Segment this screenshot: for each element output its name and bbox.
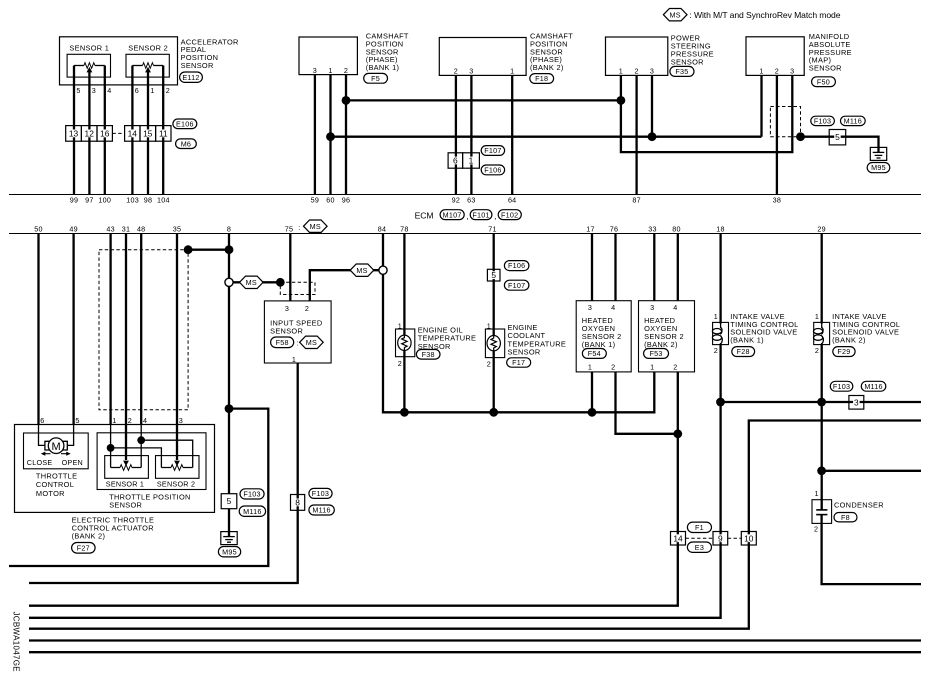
throttle position sensor box [97,433,206,490]
svg-text:SENSOR: SENSOR [181,61,214,70]
svg-text:M116: M116 [844,117,862,126]
svg-text:M95: M95 [871,163,886,172]
svg-text:11: 11 [159,128,168,138]
connector M116 (wire 8) [239,506,265,516]
svg-text:F101: F101 [472,210,489,219]
pin labels F54 [588,303,616,372]
potentiometer sensor 2 (E112) [126,54,169,77]
pin labels F27 top [40,416,183,425]
wire ECM 29 to solenoid F29 [821,234,823,324]
connector E3 [687,542,711,552]
wire shield drain to ground M95 [801,137,879,148]
pin labels F18 [454,66,515,75]
svg-text:E106: E106 [176,119,194,128]
svg-text:SENSOR: SENSOR [270,327,303,336]
connector F103 (bus) [830,381,853,391]
potentiometer TPS sensor 2 [156,456,200,479]
svg-text:3: 3 [92,86,96,95]
svg-text:1: 1 [398,321,402,330]
svg-text:59: 59 [311,196,320,205]
wire ECM 8 down to connector 5 [228,234,230,494]
junction wire 78 / ground bus [400,408,409,417]
wire E112 pin5 to ECM 99 [73,66,75,195]
svg-text:29: 29 [817,225,826,234]
svg-text:2: 2 [611,363,615,372]
connector terminal 15 [140,126,156,142]
connector terminal 12 [81,126,97,142]
connector terminal 5 (F106/F107) [487,269,500,281]
wire F18 pin2 to ECM 92 [455,75,457,194]
connector F54 [582,349,606,359]
wire ECM 78 through F38 to ground bus [403,234,405,413]
connector terminal 16 [97,126,112,142]
ground M95 left [218,547,240,557]
junction F54 pin2 / F53 pin2 [673,429,682,438]
svg-text:1: 1 [619,67,623,76]
junction TPS shield drain [184,245,193,254]
svg-text:E112: E112 [182,73,199,82]
svg-text:80: 80 [672,225,681,234]
svg-text:MS: MS [246,278,257,287]
svg-text:3: 3 [313,66,317,75]
svg-text:2: 2 [344,66,348,75]
svg-text:13: 13 [69,128,79,138]
svg-text:4: 4 [143,416,147,425]
ECM pin numbers bottom bus [34,225,826,234]
svg-text:1: 1 [510,66,514,75]
motor M symbol [45,438,67,454]
svg-text:64: 64 [508,196,517,205]
wire E112 pin1 to ECM 98 [147,72,149,195]
wire E112 pin3 to ECM 97 [88,72,90,195]
svg-text:4: 4 [611,303,615,312]
svg-text:F58: F58 [276,338,289,347]
svg-text:3: 3 [469,66,473,75]
connector M116 [841,116,866,125]
svg-text:2: 2 [814,524,818,533]
svg-text:F107: F107 [484,146,501,155]
svg-text:SENSOR 2: SENSOR 2 [157,479,195,488]
label heated oxygen sensor bank1 [582,316,622,349]
connector F107 [481,146,504,156]
engine coolant temperature sensor F17 box [485,329,504,358]
solenoid valve F28 [712,322,728,344]
junction F5 pin2 / H1 [342,96,351,105]
shield dashed box F58 input speed sensor [280,282,315,294]
svg-text:THROTTLE: THROTTLE [36,471,77,480]
svg-text:(BANK 2): (BANK 2) [530,63,564,72]
junction wire 8 split [225,404,234,413]
connector terminal 14 (F1/E3) [671,532,686,546]
connector terminal 14 [125,126,140,142]
connector F17 [507,358,531,367]
label input speed sensor [270,318,322,335]
svg-text:MOTOR: MOTOR [36,489,65,498]
svg-text:1: 1 [815,489,819,498]
svg-text:F35: F35 [675,67,688,76]
svg-text:87: 87 [632,196,641,205]
svg-text:5: 5 [491,270,496,280]
svg-text:F29: F29 [837,347,850,356]
svg-text:1: 1 [714,312,718,321]
wire F28 pin2 via connector 9 to left margin [29,344,721,618]
wire F58 pin2 to wire 84 MS branch [310,270,383,301]
svg-text:3: 3 [854,397,859,407]
svg-text:5: 5 [75,416,79,425]
wire F35 pin2 to ECM 87 [635,75,637,194]
svg-text:(BANK 2): (BANK 2) [72,531,106,540]
wire connector 5 to ground M95 [228,509,230,532]
wire ECM 71 through F17 to ground bus [493,234,495,413]
ECM bus line top [9,194,921,196]
svg-text:12: 12 [85,128,95,138]
pin labels E112 [76,86,170,95]
svg-text:F106: F106 [484,166,501,175]
label throttle position sensor [109,493,190,510]
wire TPS pin4 to sensor1 resistor [140,424,142,468]
svg-text:92: 92 [452,196,461,205]
svg-text:3: 3 [650,67,654,76]
svg-text:18: 18 [716,225,725,234]
wire E112 pin4 to ECM 100 [104,66,106,195]
svg-text:F106: F106 [508,261,525,270]
svg-text:2: 2 [634,67,638,76]
svg-text:5: 5 [227,496,232,506]
svg-text:99: 99 [70,196,79,205]
junction F28 pin2 / bus [716,398,725,407]
wire ECM 18 to solenoid F28 [719,234,721,324]
svg-text:97: 97 [85,196,94,205]
svg-text:14: 14 [128,128,138,138]
svg-text:F38: F38 [422,350,435,359]
wire ECM 80 to F53 pin4 [677,234,679,301]
junction TPS pin4 link [137,436,145,444]
connector F29 [833,347,855,357]
shield dashed box TPS wires [99,250,188,410]
svg-text:F8: F8 [841,513,850,522]
wire F54 pin2 to F53 pin2 [616,372,678,434]
connector F102 [498,210,521,220]
svg-text:MS: MS [670,10,681,19]
connector F103 [811,116,835,125]
MS hexagon wire 84 branch [350,264,374,276]
pin labels F5 [313,66,348,75]
solenoid valve F29 [814,322,830,344]
connector F18 [530,74,554,84]
wire F5 pin3 to ECM 59 [314,75,316,195]
wire via connector 10 to left margin [29,421,921,629]
wire bottom margin 2 [29,651,921,653]
svg-text:F103: F103 [814,117,831,126]
ECM pin numbers top bus [70,196,781,205]
label electric throttle control actuator [72,515,155,540]
svg-text:6: 6 [453,156,458,166]
wire ECM 31 to TPS pin2 wiper [125,234,127,461]
svg-text:(BANK 2): (BANK 2) [832,335,866,344]
svg-text:104: 104 [157,196,170,205]
potentiometer sensor 1 (E112) [67,54,110,77]
MS hexagon in F58 box [300,336,324,348]
connector E112 [180,72,203,82]
svg-text:43: 43 [106,225,115,234]
wire ECM 35 to TPS pin3 wiper [176,234,178,461]
connector F53 [644,349,669,359]
svg-text:(BANK 1): (BANK 1) [366,63,400,72]
svg-text:SENSOR: SENSOR [809,64,842,73]
wire bottom margin 1 [29,639,921,641]
label intake valve timing control solenoid bank1 [730,312,798,344]
wire H1 F5 pin2 to F35 pin1 [346,99,621,101]
connector F1 [687,522,711,532]
wire ECM 17 to F54 pin3 [591,234,593,301]
svg-text:OPEN: OPEN [62,458,83,467]
svg-text:SENSOR: SENSOR [109,500,142,509]
connector M107 [440,210,464,220]
electric throttle control actuator F27 outer box [15,425,215,513]
svg-text:103: 103 [126,196,139,205]
thermistor F17 [487,336,500,351]
label heated oxygen sensor bank2 [644,316,684,349]
svg-text:ECM: ECM [415,211,434,221]
svg-text:35: 35 [173,225,182,234]
connector terminal 3 (F103/M116) [849,396,864,410]
svg-text:10: 10 [744,533,754,543]
camshaft position sensor bank1 F5 box [299,37,357,75]
svg-text:6: 6 [135,86,139,95]
wire F5 pin2 to ECM 96 [345,75,347,195]
throttle control motor box [24,433,89,469]
svg-text:2: 2 [673,363,677,372]
wire F18 pin3 to ECM 63 [470,75,472,194]
svg-text:50: 50 [34,225,43,234]
svg-text:F54: F54 [588,349,601,358]
svg-text:SENSOR 1: SENSOR 1 [106,479,144,488]
svg-text:F5: F5 [371,74,380,83]
manifold absolute pressure sensor F50 box [746,37,804,76]
wire ECM 84 sensor ground bus to F53 pin1 [383,234,654,413]
svg-text:JCBWA1047GE: JCBWA1047GE [11,612,20,672]
svg-text:F107: F107 [508,281,525,290]
svg-text:(BANK 1): (BANK 1) [730,335,764,344]
junction F35 pin3 / H2 [648,132,657,141]
svg-text:MS: MS [310,222,321,231]
svg-text:48: 48 [137,225,146,234]
wire ECM 48 to TPS pin4 [140,234,142,425]
svg-text:MS: MS [356,266,367,275]
junction wire 71 / ground bus [489,408,498,417]
label camshaft position sensor bank1 [366,32,409,73]
wire F5 pin1 to ECM 60 [329,75,331,195]
connector F35 [670,66,694,76]
connector F8 [834,513,857,522]
connector F27 [72,543,96,554]
svg-text:SENSOR 1: SENSOR 1 [69,43,109,52]
svg-text:1: 1 [112,416,116,425]
heated oxygen sensor 2 bank1 F54 box [576,301,631,372]
svg-text:2: 2 [398,359,402,368]
wire bus F28 pin2 to connector 3 [721,401,921,403]
svg-text:CLOSE: CLOSE [27,458,53,467]
svg-text:3: 3 [179,416,183,425]
pin labels F50 [759,67,794,76]
connector F103 (F58) [309,488,332,498]
input speed sensor F58 box [264,301,331,363]
svg-text:M116: M116 [864,382,882,391]
svg-text:3: 3 [650,303,654,312]
svg-text:1: 1 [292,355,296,364]
svg-text:2: 2 [487,359,491,368]
wire pin6 to motor [39,424,45,445]
svg-text:F27: F27 [77,543,90,552]
wire pin5 to motor [67,424,73,445]
svg-text:F103: F103 [312,489,329,498]
ECM bus line bottom [9,233,921,235]
wire F50 pin1 to H2 [760,75,762,136]
MS legend hexagon [663,9,687,21]
junction F50 shield drain [796,132,805,141]
connector terminal 6 (F107/F106) [448,153,463,168]
connector M6 [176,139,197,149]
wire F53 pin2 via connector 14 to left margin [29,372,678,606]
svg-text:17: 17 [586,225,595,234]
dashed connector link 16-14 [112,132,124,134]
svg-text:SENSOR: SENSOR [508,348,541,357]
heated oxygen sensor 2 bank2 F53 box [639,301,695,372]
connector M116 (bus) [861,381,886,391]
svg-text:16: 16 [100,128,110,138]
wire E112 pin2 to ECM 104 [162,66,164,195]
svg-text:6: 6 [40,416,44,425]
svg-text:33: 33 [648,225,657,234]
svg-text:5: 5 [76,86,80,95]
svg-text:4: 4 [673,303,677,312]
svg-text:2: 2 [128,416,132,425]
svg-text:F28: F28 [737,347,750,356]
wire F50 pin2 to ECM 38 [776,75,778,194]
connector terminal 13 [66,126,82,142]
connector circle wire 84 MS branch [379,266,387,274]
svg-text:1: 1 [759,67,763,76]
wire F18 pin1 to ECM 64 [511,75,513,194]
connector F101 [470,210,492,220]
svg-text:100: 100 [98,196,111,205]
label power steering pressure sensor [671,34,714,67]
connector terminal 9 (F1/E3) [713,532,728,546]
svg-text:4: 4 [107,86,111,95]
wire TPS shield drain to wire 8 [188,249,229,251]
svg-text:M6: M6 [181,139,192,148]
connector F50 [812,77,836,87]
wire F35 pin3 to H2 [651,75,653,136]
svg-text:M116: M116 [312,506,330,515]
wire F58 pin1 via connector 8 to left margin [29,363,298,583]
svg-text:1: 1 [469,156,474,166]
svg-text:F103: F103 [243,490,260,499]
svg-text:49: 49 [69,225,78,234]
junction F54 pin1 / ground bus [588,408,597,417]
junction F29 pin2 / bus [817,398,826,407]
svg-text:8: 8 [227,225,231,234]
svg-text:1: 1 [150,86,154,95]
svg-text:96: 96 [342,196,351,205]
label engine coolant temperature sensor [508,323,567,357]
connector terminal 5 (F103/M116) [829,130,846,145]
svg-text:F17: F17 [512,358,525,367]
ground symbol right [870,147,886,161]
accelerator pedal position sensor E112 box [60,37,178,85]
connector terminal 10 (F1/E3) [741,532,756,546]
wire F29 pin2 to condenser [821,344,823,510]
svg-text:31: 31 [122,225,131,234]
wire H2 F5 pin1 to F50 pin1 [331,136,762,138]
wire TPS pin4 link to sensor2 resistor [141,440,193,467]
svg-text:1: 1 [588,363,592,372]
label throttle control motor [36,471,77,498]
svg-text:(BANK 1): (BANK 1) [582,340,616,349]
connector terminal 1 (F107/F106) [463,153,480,168]
connector F103 (wire 8) [240,489,264,499]
connector F106 (wire 71) [504,261,529,271]
wire MS branch wire8 to F58 pin3 [229,281,280,283]
wire ECM 43 to TPS pin1 [109,234,111,425]
svg-text:MS: MS [306,338,317,347]
svg-text:2: 2 [775,67,779,76]
label engine oil temperature sensor [418,325,477,350]
svg-text::: : [298,223,300,232]
svg-text:,: , [466,211,468,221]
connector M116 (F58) [309,505,334,515]
svg-text:1: 1 [487,321,491,330]
svg-text::: : [297,339,299,348]
svg-text:2: 2 [815,346,819,355]
junction condenser tap [817,466,826,475]
svg-text:63: 63 [467,196,476,205]
svg-text:3: 3 [285,304,289,313]
connector F107 (wire 71) [504,280,529,290]
wire ECM 49 to F27 pin5 [72,234,74,425]
svg-text:3: 3 [790,67,794,76]
wire TPS pin1 to sensor1 resistor [110,424,112,468]
svg-text:F102: F102 [501,210,518,219]
connector F5 [364,73,388,83]
junction MS branch / wire 75 [276,278,285,287]
condenser F8 [812,500,832,524]
connector F28 [732,347,755,357]
svg-text:1: 1 [815,312,819,321]
wire F35 pin1 to F50 pin3 [621,75,792,152]
ground symbol left [221,531,237,545]
junction TPS pin1 link [107,444,115,452]
junction F35 pin1 / H1 [617,96,626,105]
svg-text:9: 9 [718,533,723,543]
svg-text:E3: E3 [695,543,704,552]
label intake valve timing control solenoid bank2 [832,312,900,344]
svg-text:76: 76 [610,225,619,234]
close/open arrows [41,452,71,456]
svg-text:38: 38 [773,196,782,205]
label camshaft position sensor bank2 [530,32,573,73]
power steering pressure sensor F35 box [606,37,668,75]
svg-text:CONDENSER: CONDENSER [834,500,884,509]
svg-text:F18: F18 [535,74,548,83]
wire ECM 33 to F53 pin3 [653,234,655,301]
svg-text:,: , [494,211,496,221]
svg-text:SENSOR 2: SENSOR 2 [128,43,168,52]
label accelerator pedal position sensor [181,37,239,70]
connector circle wire 8 MS branch [225,278,233,286]
label MAP sensor [809,32,852,73]
svg-text:2: 2 [305,304,309,313]
